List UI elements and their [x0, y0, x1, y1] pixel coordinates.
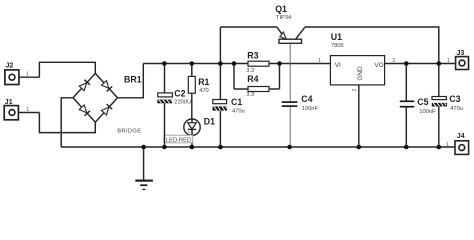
connector J2 — [5, 70, 19, 85]
svg-text:1: 1 — [318, 58, 321, 64]
junction C4 bottom node — [287, 145, 292, 150]
bridge diode top-left — [79, 80, 90, 91]
wire output rail from U1 VO to J3 — [385, 63, 456, 65]
junction C5 bottom node — [404, 145, 409, 150]
svg-text:7805: 7805 — [331, 43, 344, 49]
capacitor C4 — [282, 102, 298, 106]
svg-text:1: 1 — [446, 142, 449, 148]
junction C5 output node — [404, 61, 409, 66]
junction C2 bottom node — [162, 145, 167, 150]
wire top rail left segment — [220, 26, 277, 28]
transistor Q1 (PNP TIP34) — [277, 27, 305, 43]
wire J1 pin stub — [18, 112, 39, 114]
bridge diode bottom-left — [79, 105, 90, 116]
junction C1 riser node — [218, 61, 223, 66]
wire riser from main rail to top rail — [219, 27, 221, 64]
connector J3 — [456, 57, 469, 70]
svg-text:VO: VO — [374, 62, 383, 69]
svg-text:470u: 470u — [232, 109, 245, 115]
wire J2 riser — [39, 62, 95, 77]
bridge diode top-right — [102, 81, 113, 92]
LED D1 — [184, 119, 200, 147]
wire bottom ground rail — [61, 146, 455, 148]
resistor R4 — [234, 87, 280, 92]
svg-text:470: 470 — [199, 88, 209, 94]
svg-text:2: 2 — [352, 89, 358, 92]
ground — [135, 147, 153, 189]
svg-text:C5: C5 — [417, 97, 428, 107]
junction C2 top node — [162, 61, 167, 66]
bridge diode bottom-right — [102, 104, 113, 115]
wire bridge left vertex to ground rail — [61, 98, 73, 147]
junction C3 output node — [437, 61, 442, 66]
svg-text:J4: J4 — [457, 133, 465, 140]
junction R3 R4 left node — [232, 61, 237, 66]
bridge BR1 diamond frame — [73, 73, 118, 122]
svg-text:D1: D1 — [204, 117, 215, 127]
connector J1 — [4, 106, 18, 120]
svg-text:1: 1 — [447, 58, 450, 64]
junction R1 top node — [190, 61, 195, 66]
wire J1 path to bridge bottom — [39, 113, 95, 133]
wire bridge right vertex to main rail — [118, 64, 144, 98]
svg-text:TIP34: TIP34 — [276, 15, 291, 21]
value LED-RED boxed — [164, 135, 193, 144]
svg-text:J2: J2 — [6, 62, 14, 69]
capacitor C3 — [432, 64, 447, 148]
junction C3 bottom node — [437, 145, 442, 150]
svg-text:C4: C4 — [301, 94, 312, 104]
svg-text:U1: U1 — [331, 32, 342, 42]
svg-text:BR1: BR1 — [124, 74, 142, 84]
junction C1 bottom node — [218, 145, 223, 150]
svg-text:R4: R4 — [247, 74, 258, 84]
junction U1 gnd node — [357, 145, 362, 150]
resistor R1 — [188, 64, 195, 120]
junction ground stub node — [141, 145, 146, 150]
connector J4 — [455, 141, 469, 155]
svg-text:LED-RED: LED-RED — [166, 137, 191, 143]
wire top rail right segment to output node — [305, 27, 439, 64]
capacitor C2 — [157, 64, 172, 148]
wire U1 ground pin to rail — [358, 85, 360, 147]
svg-text:3.3: 3.3 — [246, 92, 254, 98]
junction R3 R4 right node — [277, 61, 282, 66]
svg-text:C1: C1 — [231, 97, 242, 107]
svg-text:C2: C2 — [174, 89, 185, 99]
junction D1 bottom node — [190, 145, 195, 150]
svg-text:100nF: 100nF — [419, 109, 436, 115]
svg-text:J3: J3 — [457, 50, 465, 57]
svg-text:BRIDGE: BRIDGE — [117, 128, 141, 134]
svg-text:J1: J1 — [5, 99, 13, 106]
svg-text:Q1: Q1 — [275, 4, 287, 14]
svg-text:470u: 470u — [450, 106, 463, 112]
resistor R3 — [234, 61, 280, 89]
svg-text:R3: R3 — [247, 51, 258, 61]
op-amp U1 regulator 7805 box — [330, 56, 384, 85]
capacitor C1 — [213, 64, 227, 148]
svg-text:100nF: 100nF — [302, 106, 319, 112]
svg-text:VI: VI — [335, 62, 341, 69]
capacitor C5 — [400, 64, 415, 148]
svg-text:2200U: 2200U — [174, 100, 191, 106]
wire J2 pin stub — [19, 76, 40, 78]
svg-text:GND: GND — [357, 66, 364, 81]
wire main positive rail — [143, 63, 330, 65]
wire base of Q1 down to C4 — [289, 43, 291, 147]
svg-text:C3: C3 — [449, 94, 460, 104]
svg-text:R1: R1 — [198, 77, 209, 87]
